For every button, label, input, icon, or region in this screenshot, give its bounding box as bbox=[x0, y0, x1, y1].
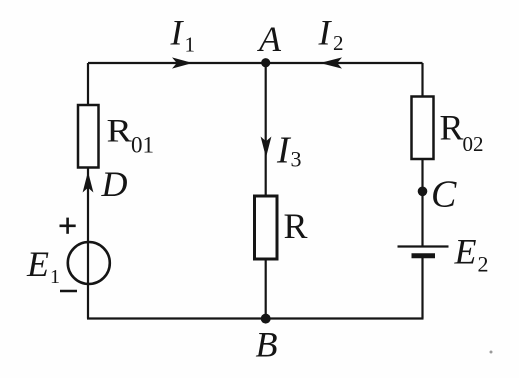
resistor R02 bbox=[412, 97, 434, 160]
current arrow I2 (points left on top wire) bbox=[320, 57, 342, 68]
resistor R01 bbox=[78, 105, 99, 168]
svg-text:I: I bbox=[318, 13, 333, 53]
svg-text:01: 01 bbox=[131, 133, 154, 158]
svg-text:B: B bbox=[256, 325, 278, 365]
scan speck bbox=[490, 351, 493, 354]
svg-text:A: A bbox=[257, 19, 282, 59]
resistor R bbox=[255, 196, 278, 259]
svg-text:C: C bbox=[431, 174, 457, 216]
node B bbox=[261, 314, 271, 324]
svg-text:2: 2 bbox=[333, 31, 344, 55]
polarity plus sign bbox=[60, 218, 76, 234]
svg-text:E: E bbox=[26, 244, 49, 284]
battery E2 short plate bbox=[412, 253, 436, 258]
wire middle branch (node A to node B) bbox=[265, 63, 267, 319]
svg-text:R: R bbox=[107, 112, 133, 149]
svg-text:R: R bbox=[440, 108, 464, 148]
svg-text:I: I bbox=[170, 13, 185, 53]
battery E2 long plate bbox=[398, 245, 449, 247]
current arrow I1 (points right on top wire) bbox=[172, 57, 193, 68]
current arrow D branch (points up on left wire) bbox=[83, 172, 94, 193]
svg-text:1: 1 bbox=[50, 266, 60, 288]
svg-text:2: 2 bbox=[478, 252, 489, 277]
svg-text:E: E bbox=[454, 232, 477, 272]
wire left branch (vertical, passes through source circle) bbox=[87, 63, 89, 319]
svg-text:3: 3 bbox=[291, 147, 302, 172]
svg-text:02: 02 bbox=[463, 132, 484, 156]
wire right branch lower (battery bottom plate to bottom corner) bbox=[421, 256, 423, 319]
wire bottom (from left corner through node B to right corner) bbox=[87, 317, 424, 319]
wire top (from left corner to right corner through node A) bbox=[88, 62, 423, 64]
svg-text:1: 1 bbox=[185, 33, 196, 57]
node A bbox=[261, 58, 270, 67]
node C bbox=[418, 187, 428, 197]
wire right branch upper (top corner to battery top plate) bbox=[421, 63, 423, 247]
current arrow I3 (points down on middle wire) bbox=[261, 137, 272, 158]
svg-text:D: D bbox=[101, 164, 128, 204]
polarity minus sign bbox=[60, 290, 77, 293]
svg-text:R: R bbox=[284, 206, 308, 246]
source E1 circle bbox=[68, 242, 110, 284]
